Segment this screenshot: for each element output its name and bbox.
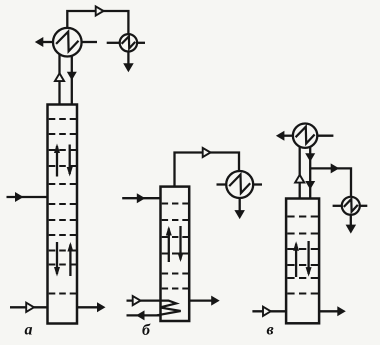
tray 2 (column A) [49, 133, 76, 135]
reflux return wire (column A) [67, 56, 77, 105]
tray 1 (column A) [49, 118, 76, 120]
tray 5 (column A) [49, 183, 76, 185]
tray 1 (column B) [162, 202, 189, 204]
svg-text:б: б [142, 322, 151, 339]
distillate arrow left (condenser V) [276, 131, 293, 141]
condenser U3 (column B) [226, 171, 253, 198]
tray 1 (column V) [287, 215, 318, 217]
vapor riser wire (column A to condenser) [58, 55, 60, 105]
bottom vapor inlet wire (column V) [252, 310, 286, 312]
tray 8 (column A) [49, 234, 76, 236]
distillate arrow down (condenser B) [234, 198, 245, 219]
column V shell [286, 199, 319, 324]
tray 6 (column V) [287, 292, 318, 294]
svg-text:а: а [25, 322, 33, 339]
tray 3 (column V) [287, 248, 318, 250]
cooler U5 (column V) [342, 197, 360, 215]
svg-text:в: в [267, 322, 274, 339]
coolant stub left (condenser B) [217, 183, 227, 185]
open arrow (reboiler inlet B) [133, 296, 141, 305]
tray 5 (column V) [287, 277, 318, 279]
column A shell [48, 105, 78, 324]
product arrow down (cooler V) [346, 215, 357, 234]
open arrow (column A bottom inlet) [26, 303, 34, 312]
product arrow down (cooler A) [123, 52, 134, 73]
tray 3 (column B) [162, 236, 189, 238]
internal liquid arrow down (column A upper) [67, 145, 73, 177]
tray 4 (column B) [162, 252, 189, 254]
tray 9 (column A) [49, 249, 76, 251]
reboiler outlet arrow left (column B) [127, 310, 161, 320]
tray 4 (column A) [49, 165, 76, 167]
internal vapor arrow up (column A upper) [54, 144, 60, 177]
distillate arrow left (condenser A) [35, 37, 53, 47]
tray 2 (column B) [162, 219, 189, 221]
coolant stub right (condenser A) [82, 41, 97, 43]
open arrow right (overhead wire A) [96, 6, 104, 15]
side draw wire to cooler (column V) [310, 163, 351, 197]
column B shell [161, 187, 190, 321]
vapor riser wire (column V to condenser) [299, 147, 301, 199]
reboiler coil (column B) [157, 301, 181, 316]
reflux arrow down 2 (column V) [305, 181, 315, 190]
condenser U1 (column A) [53, 28, 82, 57]
tray 11 (column A) [49, 292, 76, 294]
open arrow up (vapor riser V) [295, 175, 304, 183]
condenser U4 (column V) [293, 124, 317, 148]
tray 7 (column A) [49, 219, 76, 221]
tray 3 (column A) [49, 149, 76, 151]
bottoms outlet wire (column V) [319, 306, 346, 316]
bottom vapor inlet wire (column A) [10, 306, 48, 308]
coolant stub left (cooler V) [333, 205, 342, 207]
tray 5 (column B) [162, 272, 189, 274]
cooler U2 (column A) [120, 34, 137, 51]
open arrow up (vapor riser A) [55, 73, 64, 81]
reboiler inlet wire (column B) [127, 299, 161, 301]
bottoms outlet wire right (column B) [189, 296, 220, 306]
overhead vapor wire (condenser A to cooler) [67, 11, 128, 34]
open arrow (column V bottom inlet) [263, 307, 271, 316]
coolant stub left (cooler A) [107, 42, 120, 44]
reflux return wire (column V) [309, 147, 311, 199]
overhead vapor wire (column B to condenser) [175, 153, 240, 187]
bottoms outlet wire (column A) [77, 302, 106, 312]
tray 6 (column B) [162, 287, 189, 289]
tray 6 (column A) [49, 203, 76, 205]
open arrow right (overhead wire B) [203, 148, 211, 157]
coolant stub right (cooler V) [360, 205, 368, 207]
tray 4 (column V) [287, 264, 318, 266]
coolant stub right (condenser V) [317, 135, 333, 137]
internal liquid arrow down (column A lower) [54, 242, 60, 277]
coolant stub right (cooler A) [137, 42, 145, 44]
internal liquid arrow down (column V) [306, 241, 312, 277]
reflux arrow down 1 (column V) [305, 153, 315, 162]
internal liquid arrow down (column B) [178, 226, 184, 262]
internal vapor arrow up (column A lower) [67, 242, 73, 276]
tray 10 (column A) [49, 263, 76, 265]
coolant stub right (condenser B) [253, 183, 262, 185]
tray 2 (column V) [287, 232, 318, 234]
internal vapor arrow up (column V) [293, 241, 299, 277]
internal vapor arrow up (column B) [166, 226, 172, 262]
feed line (column A) [7, 192, 48, 202]
feed line (column B) [122, 193, 160, 203]
